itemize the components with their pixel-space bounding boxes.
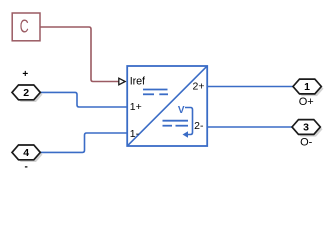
svg-text:+: + — [22, 69, 28, 80]
svg-text:2-: 2- — [194, 120, 204, 132]
port 4 — [12, 145, 43, 162]
wire 2+ to port1 — [207, 86, 293, 88]
svg-text:1+: 1+ — [130, 101, 142, 113]
svg-text:1: 1 — [304, 81, 310, 93]
svg-text:O-: O- — [300, 137, 313, 149]
physical signal wire C to Iref — [40, 27, 119, 82]
DC symbol upper — [143, 90, 168, 95]
constant block C — [12, 13, 40, 41]
svg-text:C: C — [20, 17, 29, 37]
svg-text:2+: 2+ — [193, 80, 205, 92]
voltage measurement arrow — [183, 108, 193, 138]
svg-text:Iref: Iref — [130, 75, 146, 87]
wire port4 to 1- — [40, 133, 127, 152]
port 3 — [292, 120, 323, 137]
svg-text:2: 2 — [23, 87, 29, 99]
svg-text:O+: O+ — [299, 96, 314, 108]
converter block U1 — [127, 66, 207, 146]
wire port2 to 1+ — [40, 92, 127, 107]
wire 2- to port3 — [207, 126, 292, 128]
svg-text:-: - — [25, 162, 28, 173]
PS input arrowhead — [119, 78, 125, 85]
svg-text:1-: 1- — [130, 128, 140, 140]
svg-text:3: 3 — [303, 122, 309, 134]
DC symbol lower — [163, 121, 189, 126]
svg-text:4: 4 — [23, 147, 29, 159]
svg-text:V: V — [178, 105, 185, 116]
port 1 — [293, 79, 324, 96]
port 2 — [12, 85, 43, 102]
